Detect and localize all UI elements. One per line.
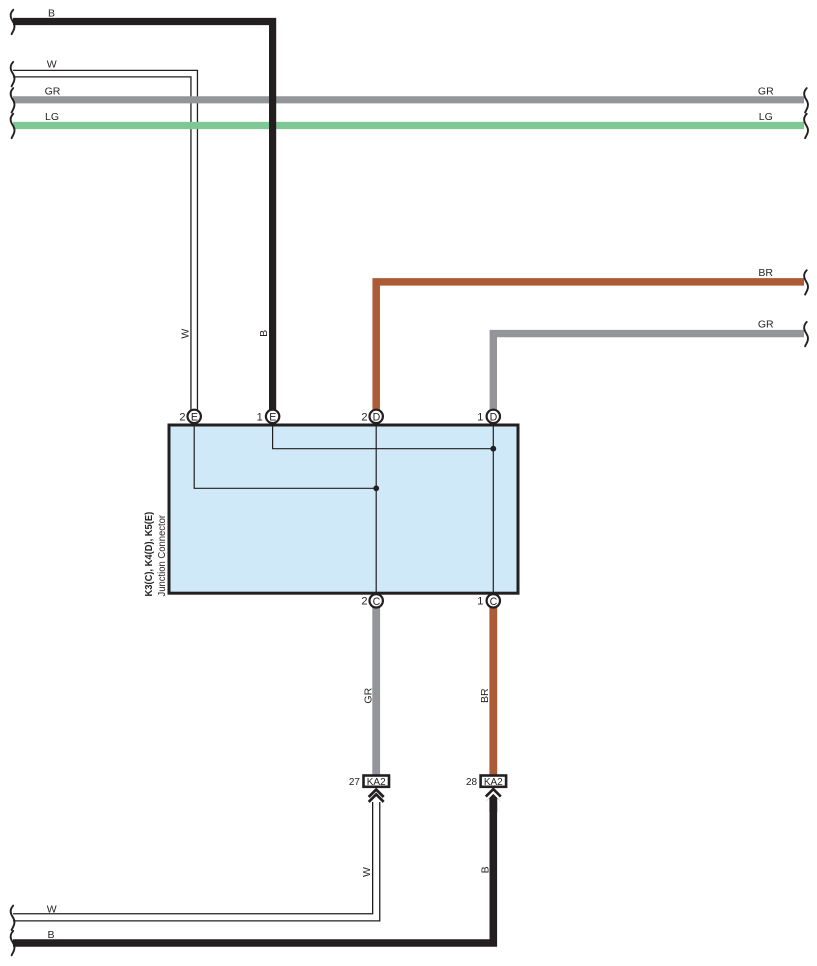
svg-text:W: W bbox=[180, 329, 192, 339]
svg-text:B: B bbox=[479, 866, 491, 873]
svg-text:2: 2 bbox=[361, 411, 367, 423]
svg-text:LG: LG bbox=[45, 111, 59, 123]
svg-text:C: C bbox=[373, 596, 381, 608]
svg-text:28: 28 bbox=[466, 777, 478, 788]
svg-text:E: E bbox=[269, 412, 276, 424]
svg-text:LG: LG bbox=[759, 111, 773, 123]
svg-text:GR: GR bbox=[362, 687, 374, 703]
svg-text:D: D bbox=[373, 412, 381, 424]
svg-text:B: B bbox=[48, 7, 55, 19]
svg-text:D: D bbox=[490, 412, 498, 424]
svg-text:GR: GR bbox=[758, 86, 774, 98]
svg-text:BR: BR bbox=[479, 688, 491, 703]
svg-text:2: 2 bbox=[179, 411, 185, 423]
svg-text:C: C bbox=[490, 596, 498, 608]
svg-text:KA2: KA2 bbox=[484, 777, 503, 788]
svg-text:1: 1 bbox=[257, 411, 263, 423]
svg-text:B: B bbox=[258, 330, 270, 337]
svg-text:2: 2 bbox=[361, 596, 367, 608]
svg-text:GR: GR bbox=[45, 86, 61, 98]
svg-text:W: W bbox=[47, 904, 57, 916]
svg-text:1: 1 bbox=[477, 596, 483, 608]
svg-text:Junction Connector: Junction Connector bbox=[157, 514, 168, 596]
svg-text:BR: BR bbox=[758, 267, 773, 279]
svg-text:B: B bbox=[47, 929, 54, 941]
svg-text:W: W bbox=[361, 867, 373, 877]
svg-text:E: E bbox=[191, 412, 198, 424]
svg-text:K3(C), K4(D), K5(E): K3(C), K4(D), K5(E) bbox=[144, 512, 155, 597]
svg-text:27: 27 bbox=[349, 777, 361, 788]
svg-text:GR: GR bbox=[758, 319, 774, 331]
svg-text:W: W bbox=[47, 58, 57, 70]
svg-text:KA2: KA2 bbox=[367, 777, 386, 788]
svg-text:1: 1 bbox=[477, 411, 483, 423]
